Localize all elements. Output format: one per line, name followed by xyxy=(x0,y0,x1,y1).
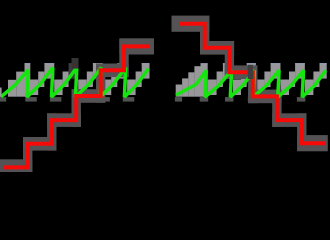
right staircase: red line xyxy=(180,24,326,144)
left edge gray column xyxy=(0,88,1,97)
right panel: green sawtooth wave xyxy=(176,70,326,97)
right panel: shadow boxes under sawtooth tips xyxy=(175,97,306,102)
right staircase: gray shadow xyxy=(172,16,328,152)
right panel: gray quantized staircase xyxy=(176,63,327,97)
darkened right part of tall step at right staircase crossing xyxy=(248,65,253,79)
left staircase: gray shadow xyxy=(0,38,154,175)
left panel: green sawtooth wave xyxy=(1,68,149,98)
red dot artifact at left tall step x=74.5 xyxy=(74,64,75,66)
left panel: gray quantized staircase xyxy=(0,63,150,97)
dark overlay hiding drop top at left tall step x=72-78 xyxy=(72,58,79,69)
left staircase: red line xyxy=(4,46,150,167)
left panel: shadow boxes under sawtooth tips xyxy=(0,97,134,102)
